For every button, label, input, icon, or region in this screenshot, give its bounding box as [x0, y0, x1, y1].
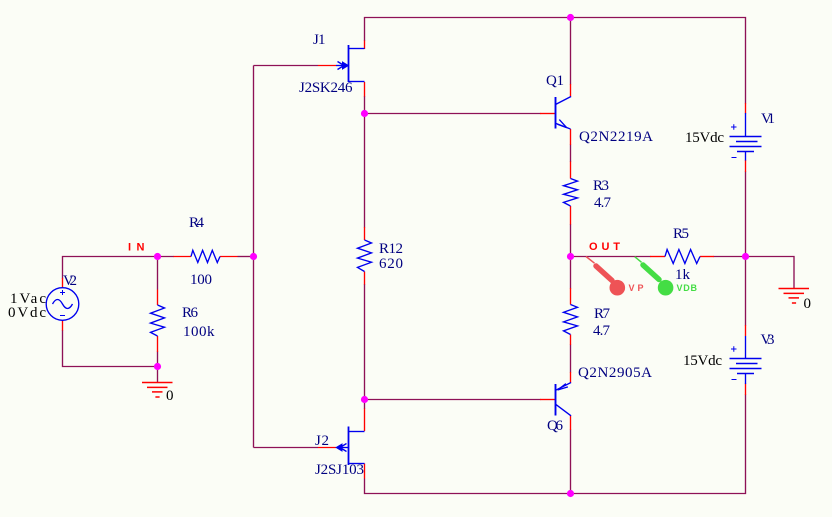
pin Q6 emitter	[570, 372, 572, 383]
wire R4 to left column	[238, 256, 254, 258]
junction V2 ground node	[154, 363, 161, 370]
pin J1 drain	[364, 41, 366, 50]
wire node A to Q1 base	[365, 113, 541, 115]
wire Q1 collector to top rail	[570, 18, 572, 85]
svg-text:V2: V2	[63, 273, 77, 289]
transistor Q6	[556, 383, 572, 416]
svg-text:Q6: Q6	[547, 418, 564, 434]
svg-text:V3: V3	[761, 332, 775, 348]
pin R5 1	[650, 256, 665, 258]
junction node A J1 source	[361, 110, 368, 117]
wire J1 source to R12 top	[364, 96, 366, 228]
resistor R4 body	[191, 250, 220, 262]
junction R4 left column	[250, 253, 257, 260]
svg-text:J2SK246: J2SK246	[299, 80, 353, 96]
wire R12 bottom to J2 drain	[364, 284, 366, 409]
wire V2 plus to node IN	[63, 257, 158, 279]
svg-text:R3: R3	[593, 178, 609, 194]
source V2	[46, 288, 79, 321]
svg-text:4.7: 4.7	[593, 323, 611, 339]
JFET J1	[336, 45, 365, 82]
svg-text:R6: R6	[182, 305, 199, 321]
pin J2 gate	[318, 447, 336, 449]
junction right rail R5	[742, 253, 749, 260]
source V3 battery	[730, 336, 762, 384]
svg-text:IN: IN	[128, 242, 145, 254]
svg-text:OUT: OUT	[589, 241, 620, 253]
pin R6 2	[157, 336, 159, 352]
pin R3 1	[570, 162, 572, 179]
junction bottom rail Q6 collector	[567, 490, 574, 497]
pin V2 plus	[62, 278, 64, 288]
pin V2 minus	[62, 321, 64, 331]
svg-text:4.7: 4.7	[594, 195, 612, 211]
pin R12 1	[364, 227, 366, 240]
svg-text:15Vdc: 15Vdc	[685, 130, 724, 146]
probe VP marker	[586, 257, 625, 296]
wire node OUT to R5	[571, 256, 651, 258]
pin R7 1	[570, 288, 572, 305]
pin R12 2	[364, 272, 366, 285]
pin R5 2	[700, 256, 714, 258]
pin V1 plus	[745, 103, 747, 114]
wire R3 to node OUT	[570, 224, 572, 257]
wire R6 bottom to ground node	[157, 352, 159, 367]
transistor Q1	[556, 97, 572, 130]
svg-text:100: 100	[190, 272, 212, 288]
svg-text:R5: R5	[673, 226, 689, 242]
svg-text:Q1: Q1	[546, 73, 564, 89]
svg-text:100k: 100k	[183, 324, 215, 340]
svg-text:0: 0	[804, 296, 812, 312]
ground 0 right	[779, 289, 810, 304]
resistor R5 body	[665, 250, 700, 264]
JFET J2	[336, 427, 364, 466]
wire node IN to R4	[158, 256, 175, 258]
pin R7 2	[570, 335, 572, 346]
source V1 battery	[730, 113, 762, 161]
resistor R7 body	[564, 305, 578, 335]
junction top rail Q1 collector	[567, 14, 574, 21]
wire Q6 collector to bottom rail	[570, 430, 572, 494]
wire R5 to right node	[714, 256, 746, 258]
wire left column vertical J1 gate to J2 gate	[253, 66, 255, 448]
pin Q1 collector	[570, 84, 572, 97]
wire V2 minus to ground node	[63, 330, 158, 367]
junction node OUT	[567, 253, 574, 260]
svg-text:R12: R12	[379, 241, 403, 257]
pin J2 drain	[364, 409, 366, 432]
pin R4 1	[174, 256, 192, 258]
pin Q6 base	[540, 399, 556, 401]
wire node OUT down to R7	[570, 257, 572, 289]
svg-text:R7: R7	[594, 306, 611, 322]
svg-text:1k: 1k	[675, 267, 691, 283]
svg-text:Q2N2905A: Q2N2905A	[578, 365, 652, 381]
wire right node to V3 plus	[745, 257, 747, 326]
resistor R12 body	[358, 240, 372, 272]
svg-text:V1: V1	[761, 111, 775, 127]
svg-text:J2SJ103: J2SJ103	[315, 462, 364, 478]
wire R7 to Q6 emitter	[570, 345, 572, 373]
ground 0 left	[142, 383, 173, 398]
svg-text:J2: J2	[315, 433, 329, 449]
svg-text:15Vdc: 15Vdc	[683, 353, 722, 369]
junction node IN	[154, 253, 161, 260]
svg-text:J1: J1	[313, 32, 326, 48]
pin J1 gate	[318, 65, 336, 67]
wire right node to ground 0	[746, 257, 795, 289]
pin V3 minus	[745, 384, 747, 396]
junction node B J2 drain	[361, 396, 368, 403]
wire node B to Q6 base	[365, 399, 541, 401]
wire left column to J1 gate	[254, 65, 319, 67]
svg-text:0: 0	[166, 388, 174, 404]
resistor R6 body	[151, 305, 165, 336]
pin R4 2	[220, 256, 238, 258]
wire top rail from J1 drain to V1 top	[365, 18, 746, 104]
wire V1 minus to right node	[745, 172, 747, 257]
svg-text:VDB: VDB	[677, 283, 698, 293]
wire Q1 emitter to R3	[570, 145, 572, 163]
wire V3 minus to bottom rail to J2 source	[365, 395, 746, 494]
pin Q1 emitter	[570, 129, 572, 145]
pin Q1 base	[540, 113, 556, 115]
resistor R3 body	[564, 179, 578, 207]
svg-text:R4: R4	[189, 215, 205, 231]
pin R3 2	[570, 206, 572, 225]
probe VDB marker	[635, 257, 674, 296]
svg-text:VP: VP	[629, 283, 644, 293]
pin R6 1	[157, 290, 159, 306]
svg-text:0Vdc: 0Vdc	[8, 305, 46, 321]
wire ground node stem	[157, 367, 159, 383]
pin V1 minus	[745, 160, 747, 172]
pin V3 plus	[745, 325, 747, 336]
pin Q6 collector	[570, 416, 572, 431]
pin J1 source	[364, 82, 366, 97]
wire node IN to R6 top	[157, 257, 159, 290]
svg-text:Q2N2219A: Q2N2219A	[579, 129, 653, 145]
pin J2 source	[364, 464, 366, 479]
wire left column to J2 gate	[254, 447, 319, 449]
svg-text:620: 620	[379, 256, 403, 272]
